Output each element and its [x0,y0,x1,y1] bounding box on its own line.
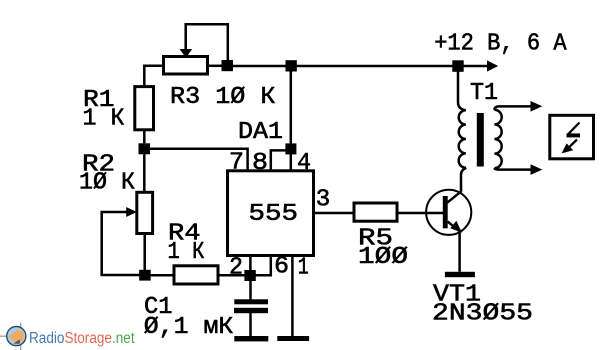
svg-text:555: 555 [249,201,299,228]
svg-text:1ØØ: 1ØØ [358,244,408,271]
svg-text:1: 1 [298,255,309,282]
svg-text:6: 6 [274,254,289,281]
svg-text:2N3Ø55: 2N3Ø55 [432,301,533,328]
svg-text:2: 2 [229,255,243,282]
svg-text:DA1: DA1 [238,119,283,146]
svg-text:1 К: 1 К [168,239,205,266]
svg-text:4: 4 [297,150,311,177]
svg-text:1 К: 1 К [83,106,125,133]
svg-text:Ø,1 мК: Ø,1 мК [144,314,234,341]
svg-text:RadioStorage.net: RadioStorage.net [29,330,135,347]
svg-text:1Ø К: 1Ø К [79,170,135,197]
svg-text:R3 1Ø К: R3 1Ø К [170,84,276,111]
svg-text:8: 8 [252,150,268,177]
svg-text:7: 7 [229,149,244,176]
svg-text:T1: T1 [470,80,498,107]
svg-text:3: 3 [316,186,331,213]
svg-text:+12 В, 6 А: +12 В, 6 А [434,31,567,58]
